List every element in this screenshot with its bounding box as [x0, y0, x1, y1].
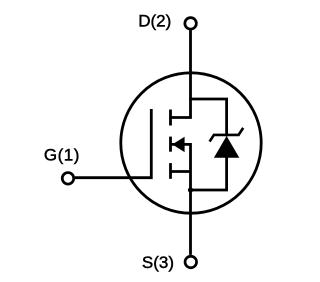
svg-text:G(1): G(1) — [44, 145, 80, 164]
wire drain branch to body diode cathode — [189, 99, 227, 136]
transistor envelope circle — [121, 73, 261, 213]
substrate arrow — [172, 137, 184, 152]
channel segment top — [169, 110, 172, 126]
channel segment bottom — [169, 163, 172, 179]
wire diode anode to source junction — [191, 157, 227, 191]
terminal S(3) pin circle — [185, 256, 197, 268]
wire body stub and source line down to terminal — [171, 144, 191, 255]
svg-text:S(3): S(3) — [142, 253, 174, 272]
svg-text:D(2): D(2) — [138, 11, 171, 30]
channel segment middle — [169, 137, 172, 152]
zener cathode bar of body diode — [210, 128, 244, 142]
terminal G(1) pin circle — [62, 173, 74, 185]
terminal D(2) pin circle — [185, 18, 197, 30]
junction dot source/diode — [188, 187, 193, 192]
gate electrode and wire to terminal G — [75, 109, 151, 178]
wire drain: terminal to channel top stub — [169, 30, 190, 117]
body diode anode triangle — [214, 136, 239, 158]
wire source stub — [171, 170, 191, 173]
